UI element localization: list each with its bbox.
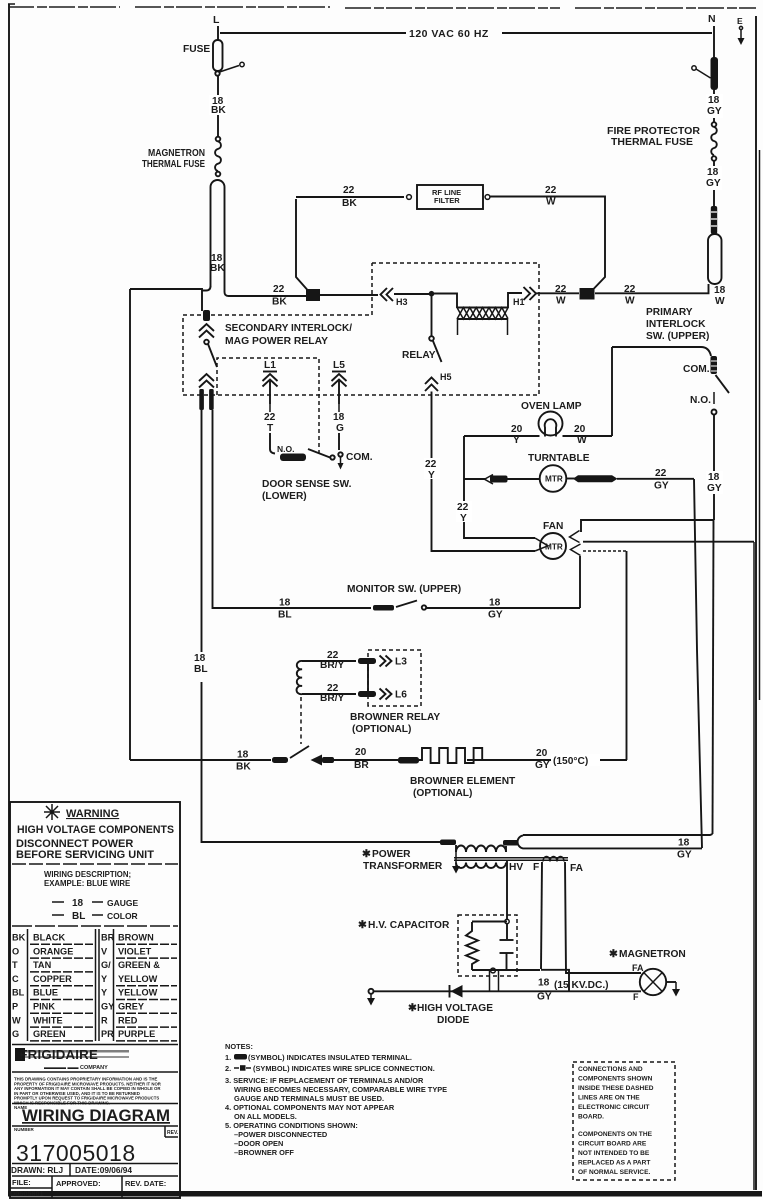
svg-text:MAG POWER RELAY: MAG POWER RELAY — [225, 336, 328, 347]
svg-text:W: W — [556, 296, 566, 307]
svg-text:T: T — [12, 960, 18, 970]
svg-text:TURNTABLE: TURNTABLE — [528, 453, 590, 464]
svg-text:FAN: FAN — [543, 521, 563, 532]
svg-text:FA: FA — [570, 863, 584, 874]
svg-text:GY: GY — [707, 483, 722, 494]
fan lower wire to browner element — [583, 550, 626, 552]
svg-text:F: F — [533, 862, 539, 873]
svg-text:FILE:: FILE: — [12, 1178, 31, 1187]
svg-text:L5: L5 — [333, 360, 345, 371]
svg-text:22: 22 — [555, 284, 567, 295]
connector L5 — [332, 360, 347, 404]
svg-text:BR: BR — [354, 760, 369, 771]
bleed resistor — [466, 922, 478, 970]
svg-text:Y: Y — [460, 513, 467, 524]
oven lamp — [521, 401, 582, 437]
svg-text:WIRING DESCRIPTION;: WIRING DESCRIPTION; — [44, 870, 131, 879]
svg-text:GY: GY — [654, 481, 669, 492]
svg-text:HIGH VOLTAGE COMPONENTS: HIGH VOLTAGE COMPONENTS — [17, 824, 174, 836]
fuse test blade — [220, 66, 240, 73]
svg-text:(SYMBOL) INDICATES INSULATED T: (SYMBOL) INDICATES INSULATED TERMINAL. — [248, 1053, 412, 1062]
svg-text:22: 22 — [624, 284, 636, 295]
svg-text:18: 18 — [538, 978, 550, 989]
svg-text:18: 18 — [708, 95, 720, 106]
svg-text:GREEN &: GREEN & — [118, 960, 160, 970]
svg-text:DRAWN: RLJ: DRAWN: RLJ — [11, 1165, 63, 1175]
svg-text:BL: BL — [72, 911, 85, 922]
svg-text:OVEN LAMP: OVEN LAMP — [521, 401, 582, 412]
svg-text:POWER: POWER — [372, 849, 411, 860]
svg-text:GY: GY — [706, 178, 721, 189]
svg-text:BK: BK — [211, 105, 226, 116]
svg-text:▬▬▬▬ ▬▬ COMPANY: ▬▬▬▬ ▬▬ COMPANY — [44, 1065, 108, 1071]
svg-text:ORANGE: ORANGE — [33, 946, 73, 956]
high voltage diode line — [373, 990, 641, 992]
wire 22 W to primary interlock column — [595, 284, 709, 293]
svg-text:BL: BL — [278, 610, 292, 621]
main line left segment — [320, 294, 378, 296]
svg-text:BROWNER ELEMENT: BROWNER ELEMENT — [410, 776, 516, 787]
wire 120 VAC 60 HZ — [220, 32, 712, 34]
splice (wire splice connection) — [306, 289, 320, 301]
svg-text:N.O.: N.O. — [277, 444, 294, 454]
wire RF filter branch left — [296, 199, 308, 290]
interlock plunger (narrow striped body) — [711, 206, 717, 234]
svg-text:BR: BR — [101, 933, 115, 943]
svg-text:W: W — [715, 296, 725, 307]
Frigidaire logo — [15, 1047, 129, 1071]
svg-text:BLUE: BLUE — [33, 988, 58, 998]
svg-text:FILTER: FILTER — [434, 196, 460, 205]
svg-text:✱: ✱ — [362, 848, 371, 860]
svg-text:(150°C): (150°C) — [553, 756, 588, 767]
fire protector fuse body (upper) — [711, 57, 719, 90]
right side wire — [753, 542, 755, 1190]
svg-text:22: 22 — [655, 468, 667, 479]
svg-text:CIRCUIT BOARD ARE: CIRCUIT BOARD ARE — [578, 1141, 647, 1148]
wire 20 GY 150C — [467, 759, 627, 761]
svg-text:BL: BL — [194, 664, 208, 675]
connector L1 — [263, 360, 278, 404]
svg-text:MONITOR SW. (UPPER): MONITOR SW. (UPPER) — [347, 584, 461, 595]
svg-text:H5: H5 — [440, 372, 452, 382]
svg-text:–DOOR OPEN: –DOOR OPEN — [234, 1139, 283, 1148]
svg-text:BL: BL — [12, 988, 25, 998]
svg-text:22: 22 — [264, 412, 276, 423]
svg-text:FUSE: FUSE — [183, 44, 210, 55]
svg-text:BK: BK — [342, 198, 357, 209]
svg-text:Y: Y — [513, 435, 520, 446]
HV capacitor dashed box — [458, 915, 517, 976]
svg-text:L6: L6 — [395, 690, 407, 701]
RF line filter — [407, 185, 490, 209]
svg-text:W: W — [546, 197, 556, 208]
turntable motor — [464, 453, 694, 492]
svg-text:G: G — [12, 1029, 19, 1039]
svg-text:BK: BK — [210, 263, 225, 274]
magnetron — [609, 948, 686, 1002]
browner line 18 BK — [130, 759, 271, 761]
wire 22 W from filter — [490, 197, 605, 290]
svg-text:GREY: GREY — [118, 1002, 144, 1012]
svg-text:MAGNETRON: MAGNETRON — [148, 148, 205, 159]
wire node to relay coil — [434, 294, 457, 309]
svg-text:L1: L1 — [264, 360, 276, 371]
svg-text:GY: GY — [707, 106, 722, 117]
svg-text:BK: BK — [272, 297, 287, 308]
wires to HV diode line — [490, 971, 499, 991]
svg-text:E: E — [737, 16, 743, 26]
svg-text:3. SERVICE: IF REPLACEMENT OF: 3. SERVICE: IF REPLACEMENT OF TERMINALS … — [225, 1076, 424, 1085]
dashed box: door sense sw on board — [217, 358, 319, 453]
svg-text:ON ALL MODELS.: ON ALL MODELS. — [234, 1112, 297, 1121]
fan middle wire to right — [583, 541, 754, 543]
svg-text:YELLOW: YELLOW — [118, 988, 158, 998]
wire 22 T — [269, 404, 271, 412]
svg-text:W: W — [577, 435, 587, 446]
svg-text:BR/Y: BR/Y — [320, 660, 345, 671]
svg-text:BK: BK — [12, 933, 26, 943]
oven lamp feed vertical 20 W — [611, 347, 613, 436]
wire 18 GY lower — [713, 161, 715, 206]
svg-text:BLACK: BLACK — [33, 933, 66, 943]
wire 18 GY — [713, 90, 715, 122]
svg-text:20: 20 — [511, 424, 523, 435]
svg-text:G/: G/ — [101, 960, 111, 970]
transformer wire loop to 18 GY — [518, 834, 713, 848]
browner element — [419, 748, 485, 763]
svg-text:GY: GY — [677, 850, 692, 861]
svg-text:22: 22 — [273, 284, 285, 295]
dashed box: electronic circuit board (relay section) — [183, 263, 539, 395]
notes — [225, 1042, 447, 1157]
F wire to magnetron — [541, 970, 569, 991]
svg-text:P: P — [12, 1002, 18, 1012]
svg-text:GY: GY — [488, 610, 503, 621]
svg-text:RED: RED — [118, 1015, 138, 1025]
warning / title block — [10, 802, 180, 1198]
wire 18 BK upper — [217, 76, 219, 136]
svg-text:GY: GY — [535, 760, 550, 771]
svg-text:TAN: TAN — [33, 960, 52, 970]
magnetron thermal fuse — [142, 137, 221, 177]
svg-text:18: 18 — [707, 167, 719, 178]
svg-text:18: 18 — [279, 598, 291, 609]
svg-text:HIGH VOLTAGE: HIGH VOLTAGE — [417, 1003, 493, 1014]
fan top wire to 18 GY junction — [581, 520, 714, 532]
thermal fuse body capsule — [211, 180, 225, 292]
svg-text:N.O.: N.O. — [690, 395, 711, 406]
browner relay coil — [297, 661, 356, 744]
svg-text:C: C — [12, 974, 19, 984]
circuit board note box — [573, 1062, 675, 1180]
svg-text:F: F — [633, 992, 639, 1002]
splice 2 — [580, 288, 595, 300]
svg-text:18: 18 — [194, 653, 206, 664]
left rail 18 BL (to transformer) — [202, 410, 442, 842]
fan wire to monitor sw — [579, 556, 581, 608]
svg-text:PURPLE: PURPLE — [118, 1029, 155, 1039]
svg-text:GY: GY — [537, 992, 552, 1003]
rail to monitor switch — [213, 410, 372, 608]
browner relay terminals — [358, 658, 376, 664]
svg-text:WARNING: WARNING — [66, 808, 119, 820]
svg-text:N: N — [708, 13, 716, 25]
svg-text:COPPER: COPPER — [33, 974, 72, 984]
svg-text:(15 KV.DC.): (15 KV.DC.) — [554, 980, 609, 991]
svg-text:RELAY: RELAY — [402, 350, 436, 361]
svg-text:THERMAL FUSE: THERMAL FUSE — [611, 137, 693, 148]
svg-text:MAGNETRON: MAGNETRON — [619, 949, 686, 960]
svg-text:18: 18 — [489, 598, 501, 609]
capacitor internal top wire — [472, 921, 507, 923]
svg-text:OF NORMAL SERVICE.: OF NORMAL SERVICE. — [578, 1169, 650, 1176]
svg-text:GY: GY — [101, 1002, 114, 1012]
svg-text:5. OPERATING CONDITIONS SHOWN:: 5. OPERATING CONDITIONS SHOWN: — [225, 1121, 358, 1130]
svg-text:(LOWER): (LOWER) — [262, 491, 307, 502]
svg-text:COMPONENTS ON THE: COMPONENTS ON THE — [578, 1131, 653, 1138]
svg-text:COM.: COM. — [683, 364, 710, 375]
svg-text:H3: H3 — [396, 297, 408, 307]
junction node — [429, 291, 435, 297]
door sense blade — [308, 449, 330, 458]
wire H1 to splice — [536, 292, 579, 294]
wire coil to H1 — [508, 293, 522, 308]
svg-text:(SYMBOL) INDICATES WIRE SPLICE: (SYMBOL) INDICATES WIRE SPLICE CONNECTIO… — [253, 1064, 435, 1073]
test terminal at N fuse — [692, 66, 696, 70]
wire H3 to node — [394, 293, 429, 295]
svg-text:BROWNER RELAY: BROWNER RELAY — [350, 712, 440, 723]
svg-text:D0505801: D0505801 — [10, 1189, 44, 1198]
svg-text:GAUGE AND TERMINALS MUST BE US: GAUGE AND TERMINALS MUST BE USED. — [234, 1094, 384, 1103]
svg-text:COMPONENTS SHOWN: COMPONENTS SHOWN — [578, 1076, 653, 1083]
svg-text:DOOR SENSE SW.: DOOR SENSE SW. — [262, 479, 352, 490]
svg-text:120 VAC 60 HZ: 120 VAC 60 HZ — [409, 28, 489, 40]
svg-text:V: V — [101, 946, 108, 956]
connector L3 — [380, 656, 408, 668]
power transformer — [440, 840, 568, 869]
svg-text:MTR: MTR — [545, 543, 563, 552]
svg-text:GAUGE: GAUGE — [107, 898, 139, 908]
svg-text:PR: PR — [101, 1029, 114, 1039]
relay switch — [402, 296, 442, 362]
svg-text:2.: 2. — [225, 1064, 231, 1073]
power transformer label — [362, 848, 443, 872]
primary interlock switch body capsule — [708, 234, 722, 284]
svg-text:H.V. CAPACITOR: H.V. CAPACITOR — [368, 920, 450, 931]
transformer ground — [455, 852, 457, 868]
svg-text:INSIDE THESE DASHED: INSIDE THESE DASHED — [578, 1085, 654, 1092]
svg-text:DATE:09/06/94: DATE:09/06/94 — [75, 1165, 132, 1175]
wire 18 GY down to transformer loop — [713, 520, 714, 834]
svg-text:YELLOW: YELLOW — [118, 974, 158, 984]
fire protector thermal fuse element — [607, 122, 717, 161]
connector H1 — [513, 287, 536, 307]
svg-text:4. OPTIONAL COMPONENTS MAY NOT: 4. OPTIONAL COMPONENTS MAY NOT APPEAR — [225, 1103, 395, 1112]
wire 18 G — [338, 404, 340, 412]
svg-text:NOTES:: NOTES: — [225, 1042, 253, 1051]
svg-text:L: L — [213, 14, 220, 26]
svg-text:THERMAL FUSE: THERMAL FUSE — [142, 159, 205, 170]
HV wire — [506, 861, 508, 919]
connector H5 — [425, 372, 452, 391]
secondary interlock switch — [199, 310, 217, 410]
svg-text:–POWER DISCONNECTED: –POWER DISCONNECTED — [234, 1130, 328, 1139]
svg-text:WIRING BECOMES NECESSARY, COMP: WIRING BECOMES NECESSARY, COMPARABLE WIR… — [234, 1085, 447, 1094]
svg-text:T: T — [267, 423, 274, 434]
ground at diode line — [369, 989, 374, 994]
svg-text:22: 22 — [425, 459, 437, 470]
svg-text:22: 22 — [545, 185, 557, 196]
svg-text:HV: HV — [509, 862, 523, 873]
wire N.O. to fan (18 GY) — [713, 415, 715, 521]
svg-text:GREEN: GREEN — [33, 1029, 66, 1039]
fan motor — [535, 521, 581, 559]
svg-text:NUMBER: NUMBER — [14, 1127, 34, 1132]
svg-text:20: 20 — [355, 747, 367, 758]
svg-text:EXAMPLE: BLUE WIRE: EXAMPLE: BLUE WIRE — [44, 879, 130, 888]
relay coil — [457, 308, 508, 336]
svg-text:Y: Y — [101, 988, 107, 998]
svg-text:22: 22 — [343, 185, 355, 196]
svg-text:FA: FA — [632, 963, 644, 973]
svg-text:FIRE PROTECTOR: FIRE PROTECTOR — [607, 126, 701, 137]
svg-text:W: W — [625, 296, 635, 307]
lamp wires 20 Y / 20 W — [464, 435, 612, 437]
svg-text:CONNECTIONS AND: CONNECTIONS AND — [578, 1066, 643, 1073]
left rail from fuse — [129, 289, 131, 760]
svg-text:VIOLET: VIOLET — [118, 946, 152, 956]
wire COM feed — [612, 347, 711, 356]
svg-text:BROWN: BROWN — [118, 933, 154, 943]
color code table — [28, 929, 114, 1041]
high voltage diode — [408, 985, 493, 1026]
svg-text:1.: 1. — [225, 1053, 231, 1062]
svg-text:✱: ✱ — [408, 1002, 417, 1014]
svg-text:FRIGIDAIRE: FRIGIDAIRE — [19, 1047, 98, 1062]
svg-text:18: 18 — [237, 750, 249, 761]
svg-text:ELECTRONIC CIRCUIT: ELECTRONIC CIRCUIT — [578, 1104, 649, 1111]
svg-text:L3: L3 — [395, 657, 407, 668]
wire to RF line filter — [296, 196, 404, 198]
svg-text:18: 18 — [72, 898, 84, 909]
wire to left rail — [130, 286, 211, 311]
svg-text:SW. (UPPER): SW. (UPPER) — [646, 331, 709, 342]
svg-text:G: G — [336, 423, 344, 434]
connector L6 — [380, 689, 408, 701]
earth symbol E — [737, 16, 745, 45]
svg-text:✱: ✱ — [358, 919, 367, 931]
svg-text:APPROVED:: APPROVED: — [56, 1179, 101, 1188]
svg-text:BOARD.: BOARD. — [578, 1114, 604, 1121]
left column wire — [464, 436, 535, 538]
svg-text:W: W — [12, 1015, 21, 1025]
warning star — [44, 804, 60, 820]
svg-text:22: 22 — [457, 502, 469, 513]
svg-text:18: 18 — [714, 285, 726, 296]
turntable wire down to transformer loop — [694, 479, 702, 848]
svg-text:COLOR: COLOR — [107, 911, 138, 921]
svg-text:WIRING DIAGRAM: WIRING DIAGRAM — [22, 1106, 170, 1125]
svg-text:Y: Y — [101, 974, 107, 984]
svg-text:PRIMARY: PRIMARY — [646, 307, 693, 318]
svg-text:H1: H1 — [513, 297, 525, 307]
primary interlock blade — [716, 375, 730, 393]
svg-text:–BROWNER OFF: –BROWNER OFF — [234, 1148, 294, 1157]
door sense COM terminal — [338, 452, 342, 456]
svg-text:Y: Y — [428, 470, 435, 481]
svg-text:REV. DATE:: REV. DATE: — [125, 1179, 166, 1188]
connector H3 — [381, 288, 408, 307]
svg-text:BK: BK — [236, 762, 251, 773]
svg-text:MTR: MTR — [545, 475, 563, 484]
svg-text:INTERLOCK: INTERLOCK — [646, 319, 706, 330]
dashed box browner relay board — [368, 650, 421, 706]
svg-text:WHITE: WHITE — [33, 1015, 63, 1025]
svg-text:BR/Y: BR/Y — [320, 693, 345, 704]
svg-text:COM.: COM. — [346, 452, 373, 463]
arrow terminal — [311, 755, 323, 766]
svg-text:DIODE: DIODE — [437, 1015, 469, 1026]
svg-text:BEFORE SERVICING UNIT: BEFORE SERVICING UNIT — [16, 849, 154, 861]
svg-text:18: 18 — [333, 412, 345, 423]
svg-text:18: 18 — [708, 472, 720, 483]
svg-text:(OPTIONAL): (OPTIONAL) — [413, 788, 472, 799]
svg-text:REPLACED AS A PART: REPLACED AS A PART — [578, 1160, 650, 1167]
svg-text:20: 20 — [536, 748, 548, 759]
svg-text:LINES ARE ON THE: LINES ARE ON THE — [578, 1095, 640, 1102]
capacitor element — [506, 923, 508, 939]
wire 18 BK lower label — [212, 250, 223, 276]
svg-text:R: R — [101, 1015, 108, 1025]
svg-text:TRANSFORMER: TRANSFORMER — [363, 861, 443, 872]
F wire — [541, 862, 542, 969]
FA wire — [565, 862, 641, 973]
svg-text:317005018: 317005018 — [16, 1140, 136, 1166]
svg-text:PINK: PINK — [33, 1002, 55, 1012]
svg-text:18: 18 — [678, 838, 690, 849]
browner element terminal — [398, 757, 419, 764]
svg-text:NOT INTENDED TO BE: NOT INTENDED TO BE — [578, 1150, 650, 1157]
wire L drop — [217, 26, 219, 40]
svg-text:SECONDARY INTERLOCK/: SECONDARY INTERLOCK/ — [225, 323, 352, 334]
fuse terminal circle — [215, 71, 219, 75]
svg-text:(OPTIONAL): (OPTIONAL) — [352, 724, 411, 735]
svg-text:REV.: REV. — [167, 1130, 179, 1136]
wire 22 Y from H5 to fan — [432, 392, 536, 552]
capacitor bottom wire — [472, 969, 540, 971]
svg-text:20: 20 — [574, 424, 586, 435]
monitor switch — [347, 584, 580, 611]
COM insulated terminal — [711, 356, 718, 374]
browner switch — [272, 757, 288, 763]
wire 22 BK branch from fuse body — [225, 292, 307, 296]
svg-text:✱: ✱ — [609, 948, 618, 960]
svg-text:O: O — [12, 946, 19, 956]
N column wire — [713, 26, 715, 58]
